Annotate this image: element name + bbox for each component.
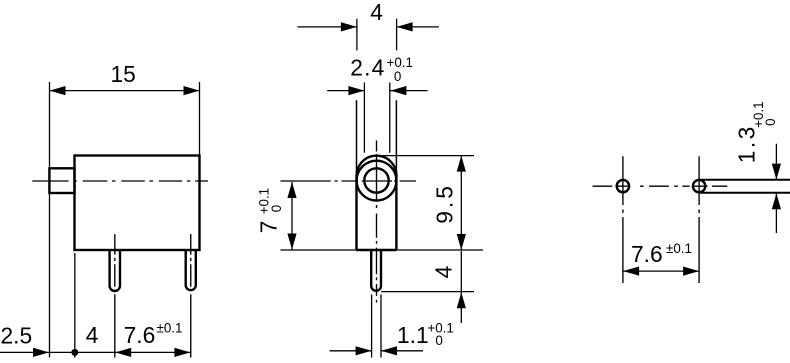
extension arc top right (9.5 top) — [377, 155, 475, 157]
arc B (front face, offset up, top half) — [357, 156, 397, 179]
svg-text:±0.1: ±0.1 — [666, 241, 692, 256]
extension pin tip right (4 bottom) — [381, 291, 474, 293]
upper side extension lines — [357, 100, 397, 176]
hole left — [617, 180, 629, 192]
svg-text:7: 7 — [256, 221, 282, 234]
svg-text:1.1: 1.1 — [397, 322, 429, 348]
outer circle A (barrel) — [357, 161, 397, 201]
dim 9.5 line — [460, 156, 462, 250]
dim 9.5 arrows — [457, 156, 466, 250]
svg-text:0: 0 — [394, 69, 401, 84]
pin 1 outline — [110, 250, 120, 291]
dim 7 arrows — [287, 182, 296, 250]
dim 1.1 arrows — [356, 346, 397, 355]
dim 7.6 line — [623, 270, 699, 272]
dim 7 line — [291, 182, 293, 250]
dim 1.3 arrows (outside) — [772, 164, 781, 210]
svg-text:4: 4 — [86, 322, 99, 348]
dim 2.4 arrows — [348, 86, 406, 95]
body bottom — [357, 249, 397, 251]
svg-text:2.4: 2.4 — [350, 54, 385, 80]
svg-text:15: 15 — [111, 61, 136, 87]
svg-text:7.6: 7.6 — [124, 322, 156, 348]
svg-text:7.6: 7.6 — [631, 241, 663, 267]
dim 2.4 line with tails — [327, 90, 427, 92]
extension line body left bottom — [74, 253, 76, 358]
svg-text:4: 4 — [370, 0, 383, 25]
vertical centerline — [376, 141, 378, 303]
extension line 7 top (to circle center) + horizontal centerline — [281, 180, 417, 182]
pin 2 centerline — [190, 234, 192, 357]
extension body bottom right (9.5 bottom) — [396, 249, 483, 251]
dim 15 arrows — [50, 86, 200, 95]
extension body bottom left (7 bottom) — [281, 249, 357, 251]
inner hole circle C — [364, 168, 388, 192]
pin edge extensions (1.1) — [372, 295, 381, 358]
vertical centerline hole right — [698, 156, 700, 283]
dim 4 arrows (outside pointing in) — [341, 22, 413, 31]
svg-text:9.5: 9.5 — [432, 183, 458, 224]
arrows 7.6 — [115, 348, 190, 357]
extension line body right / 15 right — [199, 82, 201, 156]
pin 2 outline — [186, 250, 196, 290]
body sides — [357, 175, 397, 250]
dim 2.4 extension lines (to hole) — [364, 83, 389, 153]
body outline — [75, 156, 200, 251]
svg-text:2.5: 2.5 — [1, 322, 33, 348]
dim 1.1 line with tails — [330, 350, 423, 352]
pin silhouette lines (1.3) — [699, 180, 790, 193]
vertical centerline hole left — [622, 156, 624, 283]
svg-text:±0.1: ±0.1 — [157, 321, 183, 336]
pin outline — [371, 250, 381, 291]
svg-text:+0.1: +0.1 — [387, 55, 413, 70]
dim 4 pin line with bottom tail — [460, 251, 462, 323]
pin 1 centerline — [114, 234, 116, 357]
arrow 2.5 — [33, 348, 49, 357]
dim 4 extension lines — [357, 19, 397, 51]
svg-text:1.3: 1.3 — [733, 124, 759, 163]
svg-text:0: 0 — [763, 118, 778, 125]
tab (bushing) on left — [49, 168, 74, 193]
dim 4 line with tails — [297, 26, 438, 28]
dot junction 4 — [71, 349, 78, 356]
centerline horizontal — [32, 180, 208, 182]
hole right — [693, 180, 705, 192]
dimension 15 line — [50, 90, 200, 92]
extension line tab left / 15 left — [49, 82, 51, 358]
dim 7.6 arrows — [623, 267, 699, 276]
horizontal centerline — [593, 185, 728, 187]
dim 1.3 line segments — [775, 144, 777, 233]
bottom dimension chain line — [0, 351, 191, 353]
svg-text:4: 4 — [431, 265, 457, 278]
dim 4 pin bottom arrow (outside, pointing up) — [457, 292, 466, 308]
svg-text:0: 0 — [269, 205, 284, 212]
svg-text:0: 0 — [435, 333, 442, 348]
